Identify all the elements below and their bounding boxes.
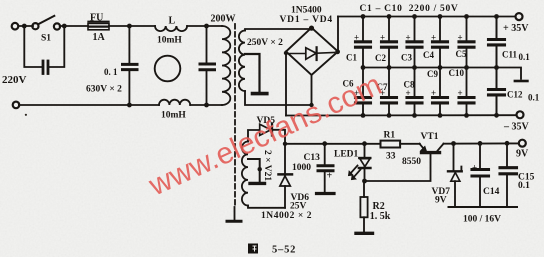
capacitor C3 [407,17,422,68]
svg-text:100 / 16V: 100 / 16V [463,215,501,225]
svg-text:C9: C9 [427,69,438,79]
node junction X-cap2 top [204,24,209,29]
capacitor C10 [459,68,474,116]
capacitor X-cap1 0.1 630V [128,26,130,63]
node junction LED1 [362,141,367,146]
wire 9V return mini rail [449,206,518,208]
svg-text:C4: C4 [423,50,434,60]
ground 12V tap [250,182,265,185]
svg-text:630V × 2: 630V × 2 [86,85,122,95]
node junction below top terminal [22,24,27,29]
wire snubber branch left drop [24,26,41,67]
svg-text:25V: 25V [290,202,307,212]
terminal -35V [517,111,524,118]
node junction bridge top vertex [309,26,314,31]
svg-text:9V: 9V [435,196,447,206]
LED LED1 [364,144,366,158]
node junctions bottom rail [361,113,499,118]
node junction bridge bottom AC [309,103,313,107]
svg-text:2 × V21: 2 × V21 [262,150,272,181]
terminal input top [12,23,19,30]
svg-text:220V: 220V [2,74,27,86]
capacitor snubber across switch [42,61,45,74]
svg-text:10mH: 10mH [157,36,182,46]
svg-text:0.1: 0.1 [518,181,530,191]
transformer secondary 12V winding [242,142,248,206]
wire VD5 to 9V rail [272,130,285,144]
resistor R1 [381,141,401,148]
ground core [234,207,236,219]
wire 12V top to VD5 [248,130,260,142]
wire inductor to transformer [187,25,222,27]
svg-text:+: + [354,33,359,43]
svg-text:R1: R1 [384,131,396,141]
svg-text:LED1: LED1 [334,150,359,160]
diode inside bridge [290,53,335,54]
svg-text:+: + [327,171,333,182]
svg-text:VT1: VT1 [421,132,439,142]
wire plus 35V top rail [338,16,516,18]
wire bridge left vertex to minus rail [285,52,287,116]
svg-text:FU: FU [90,13,103,24]
diode VD6 [284,186,286,208]
wire secondary top to bridge top [245,29,312,31]
terminal 9V [519,140,526,147]
capacitor C15 [505,141,510,146]
svg-text:C11: C11 [502,50,518,60]
svg-text:VD1 – VD4: VD1 – VD4 [280,15,333,25]
capacitor C9 [433,68,448,116]
capacitor C12 [489,68,505,116]
capacitor C6 [356,68,371,116]
node junction right of switch [62,24,67,29]
wire bridge right vertex to plus rail [337,17,339,52]
capacitor C7 [382,68,397,116]
ground R2 [356,232,373,235]
speck noise [25,114,27,116]
svg-text:9V: 9V [516,149,529,160]
inductor bottom 10mH [159,100,190,105]
bridge rectifier VD1-VD4 [286,28,338,75]
svg-text:33: 33 [386,152,396,162]
transformer secondary 250V winding [239,31,245,91]
terminal input bottom [13,102,20,109]
svg-text:C3: C3 [401,53,412,63]
svg-text:1N5400: 1N5400 [291,6,322,16]
diode VD5 [260,124,271,135]
svg-text:C10: C10 [449,68,465,78]
node junction LED R2 base wire [362,179,367,184]
wire 12V center tap [248,159,260,182]
capacitor C2 [382,17,397,68]
wire top rail segment terminal to switch [18,25,33,27]
svg-text:+: + [458,33,463,43]
node junctions top rail [361,14,499,19]
svg-text:5–52: 5–52 [272,245,296,256]
wire secondary bottom to bridge bottom [245,91,312,105]
node junctions mid rail [361,65,499,70]
svg-text:+: + [406,88,411,98]
wire ground mid rail [363,68,521,79]
capacitor C1 [356,17,371,68]
svg-text:C1: C1 [346,53,357,63]
wire 9V rail mid part [400,143,420,145]
choke core circle [155,56,181,82]
wire secondary center tap [245,54,260,92]
node junction X-cap2 bottom [204,103,209,108]
capacitor X-cap2 [206,26,208,63]
caption figure glyph [248,244,258,254]
svg-text:1N4002 × 2: 1N4002 × 2 [261,211,312,221]
capacitor C13 [324,144,326,165]
svg-text:1000: 1000 [292,163,311,173]
capacitor C4 [433,17,448,68]
wire base [365,154,431,181]
svg-text:+: + [380,33,385,43]
svg-text:+: + [472,163,477,173]
transformer primary winding [222,26,230,105]
fuse FU [88,21,108,23]
node junction bridge left vertex [284,51,288,55]
svg-text:0.1: 0.1 [519,52,531,62]
inductor L top 10mH [155,26,187,31]
svg-text:+: + [431,33,436,43]
svg-text:1. 5k: 1. 5k [370,211,391,222]
node junction C13 [322,141,327,146]
capacitor C5 [459,17,474,68]
diode zener VD7 [451,141,456,146]
node junction X-cap1 top [127,24,132,29]
ground C13 [317,192,335,195]
LED arrows [350,166,361,179]
wire switch to fuse [60,25,88,27]
svg-text:+: + [406,33,411,43]
transistor VT1 [420,144,427,152]
svg-text:C12: C12 [507,90,523,100]
svg-text:1A: 1A [93,32,106,43]
svg-text:S1: S1 [41,34,51,44]
switch S1 [32,23,38,29]
wire bottom rail [19,104,159,106]
wire 9V rail left part [285,143,381,145]
wire 12V bottom to VD6 [248,206,285,208]
terminal +35V [516,13,523,20]
svg-text:C5: C5 [456,49,467,59]
svg-text:+: + [458,88,463,98]
svg-text:C2: C2 [375,53,386,63]
capacitor C11 [489,17,505,68]
svg-text:8550: 8550 [402,157,421,167]
svg-text:200W: 200W [211,14,236,25]
ground secondary 250V tap [253,92,267,96]
transformer core dashed [234,24,236,207]
wire fuse to node [109,25,155,27]
resistor R2 [363,181,365,197]
svg-text:10mH: 10mH [161,111,186,121]
wire minus 35V bottom rail [286,114,517,116]
plus signs top row caps [354,33,463,99]
ground mid rail [515,80,528,83]
node junction X-cap1 bottom [127,103,132,108]
wire bottom rail to transformer [190,104,222,106]
svg-text:C14: C14 [483,187,500,197]
svg-text:+: + [431,88,436,98]
svg-text:C13: C13 [304,153,321,163]
node junction VD5 VD6 rail [283,142,287,146]
svg-text:0. 1: 0. 1 [104,67,118,77]
capacitor C8 [407,68,422,116]
svg-text:250V × 2: 250V × 2 [247,38,283,48]
svg-text:C1 – C10 2200 / 50V: C1 – C10 2200 / 50V [360,4,459,14]
capacitor C14 [478,141,483,146]
wire snubber branch right rise [50,26,65,67]
svg-text:L: L [169,16,176,27]
svg-text:+ 35V: + 35V [503,23,529,34]
svg-text:0.1: 0.1 [528,93,540,103]
wire bridge bottom vertex down [311,75,313,105]
node junction tap blob [258,167,262,171]
svg-text:– 35V: – 35V [503,122,530,133]
